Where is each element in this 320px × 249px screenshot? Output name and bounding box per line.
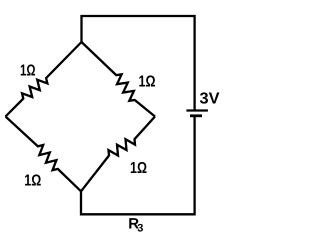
resistor R4 <box>6 117 82 192</box>
svg-text:3: 3 <box>137 223 143 235</box>
wire <box>82 16 195 110</box>
resistor R3 <box>81 117 155 192</box>
svg-text:1Ω: 1Ω <box>130 160 147 177</box>
svg-text:1Ω: 1Ω <box>139 74 156 91</box>
svg-text:1Ω: 1Ω <box>20 63 36 80</box>
resistor R2 <box>82 42 156 117</box>
battery V1 <box>186 111 208 116</box>
wire <box>81 117 195 214</box>
svg-text:3V: 3V <box>200 91 220 108</box>
svg-text:1Ω: 1Ω <box>24 173 41 190</box>
resistor R1 <box>6 42 82 117</box>
